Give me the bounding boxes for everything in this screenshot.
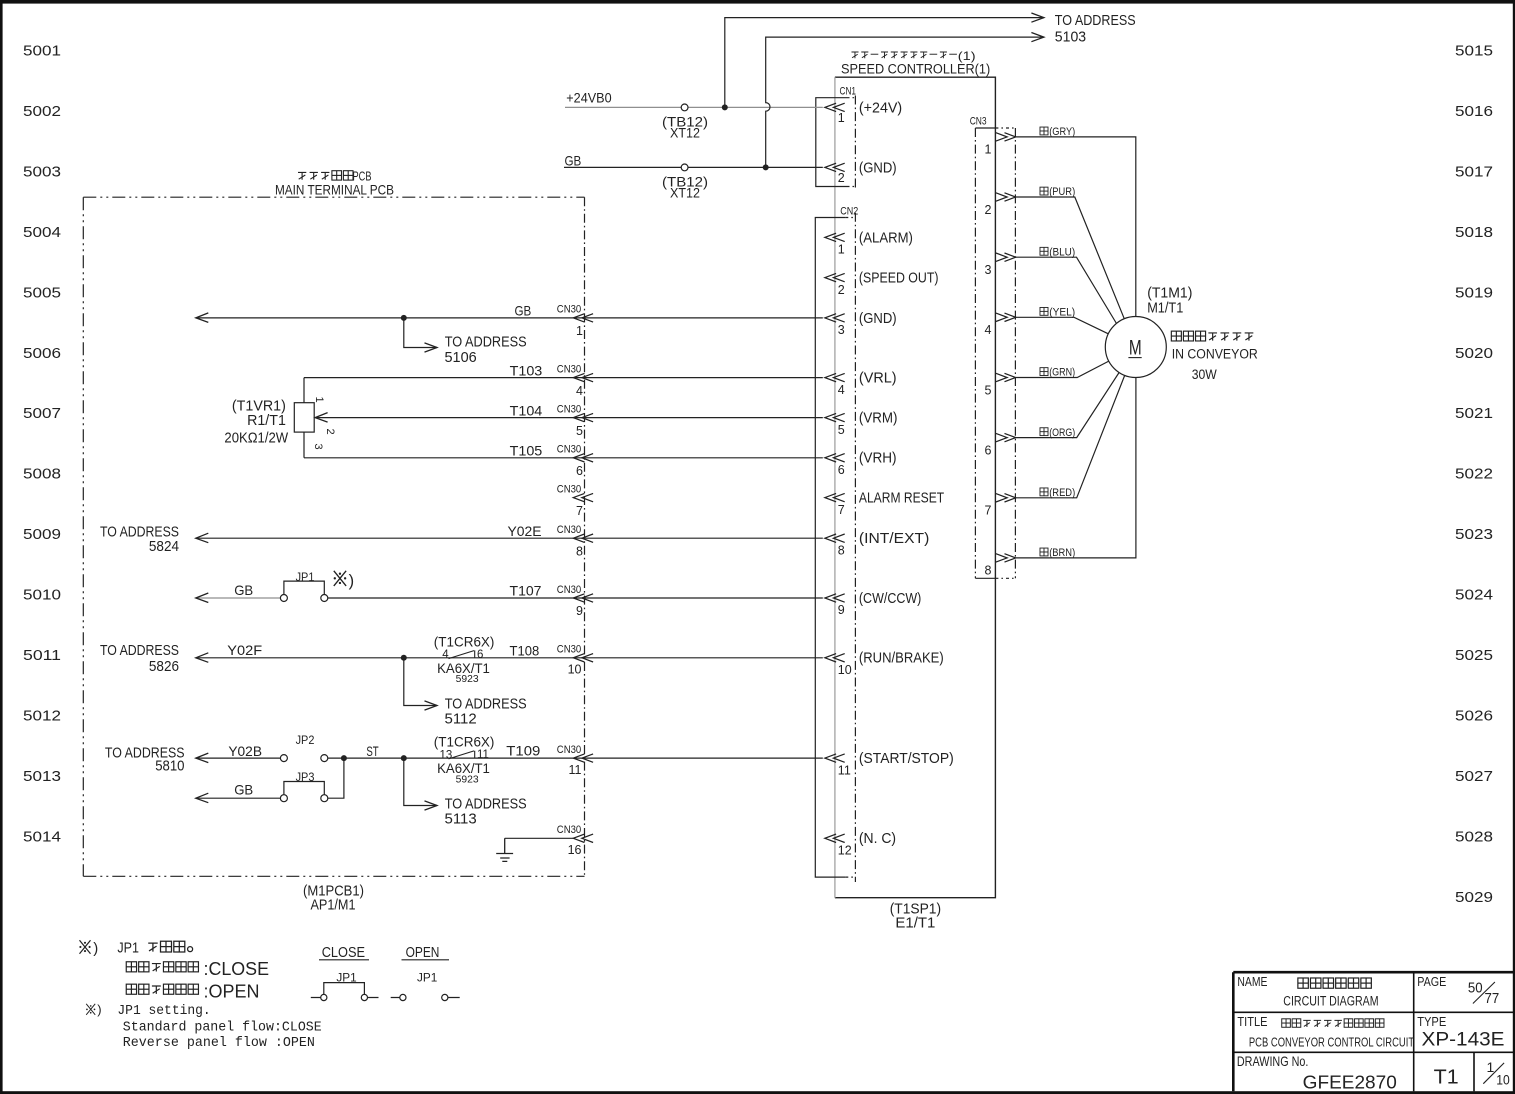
svg-text:1: 1 (576, 324, 583, 338)
svg-text:5029: 5029 (1455, 890, 1493, 906)
svg-text:5826: 5826 (149, 658, 179, 675)
CN30 pin 9 (573, 594, 593, 602)
svg-text:Standard panel flow:CLOSE: Standard panel flow:CLOSE (123, 1019, 322, 1035)
svg-text:(CW/CCW): (CW/CCW) (859, 591, 921, 607)
svg-text:GFEE2870: GFEE2870 (1303, 1071, 1397, 1092)
svg-text:5009: 5009 (23, 527, 61, 543)
svg-text:(ALARM): (ALARM) (859, 230, 913, 246)
svg-text:(GND): (GND) (859, 311, 897, 327)
svg-text:R1/T1: R1/T1 (247, 413, 286, 429)
svg-text:SPEED CONTROLLER(1): SPEED CONTROLLER(1) (841, 61, 990, 77)
label GRY (1040, 127, 1048, 135)
svg-text:CN30: CN30 (557, 304, 581, 316)
wire motor lead ORG (1016, 373, 1119, 438)
svg-text:50: 50 (1468, 979, 1483, 996)
junction on +24VB0 (722, 104, 728, 110)
svg-text:2: 2 (984, 203, 991, 217)
svg-text:(VRH): (VRH) (859, 451, 897, 467)
svg-text:5001: 5001 (23, 44, 61, 60)
svg-text:7: 7 (838, 503, 845, 517)
svg-text:5020: 5020 (1455, 346, 1493, 362)
ground symbol (496, 838, 513, 861)
svg-text:CN30: CN30 (557, 584, 581, 596)
relay contact KA6X/T1 (T1CR6X) pins 13-11 (449, 751, 475, 759)
svg-text:ST: ST (366, 744, 379, 760)
svg-text:NAME: NAME (1237, 974, 1267, 989)
svg-text:JP1 setting.: JP1 setting. (117, 1003, 210, 1019)
svg-text:(ORG): (ORG) (1049, 427, 1075, 439)
wire motor lead GRY (1016, 137, 1136, 317)
jumper JP1 (closed) (280, 595, 287, 602)
CN30 pin 8 (573, 534, 593, 542)
svg-text:(BRN): (BRN) (1049, 547, 1075, 559)
wire GB to JP3 (196, 797, 281, 799)
svg-text:5015: 5015 (1455, 44, 1493, 60)
svg-text:Reverse panel flow :OPEN: Reverse panel flow :OPEN (123, 1035, 315, 1051)
svg-text:5019: 5019 (1455, 285, 1493, 301)
svg-text:CN30: CN30 (557, 444, 581, 456)
CN2 pin 12 (N. C) (825, 834, 845, 842)
junction for 5106 tap (401, 315, 407, 321)
svg-text:12: 12 (838, 844, 852, 858)
svg-text:5923: 5923 (456, 775, 479, 786)
CN2 pin 11 (START/STOP) (825, 754, 845, 762)
connector CN1 (816, 96, 856, 191)
svg-text:5112: 5112 (445, 710, 477, 727)
svg-text:1: 1 (1487, 1059, 1495, 1075)
CN1 pin 1 (+24V) (825, 103, 845, 111)
svg-text:(VRM): (VRM) (859, 411, 898, 427)
wire T107 JP1 to CN2-9 (CW/CCW) (328, 597, 823, 599)
connector CN3 (975, 128, 1015, 578)
CN30 pin 7 (573, 493, 593, 501)
wire motor lead GRN (1016, 361, 1109, 377)
svg-text:6: 6 (984, 443, 991, 457)
CN2 pin 10 (RUN/BRAKE) (825, 654, 845, 662)
svg-text:5013: 5013 (23, 769, 61, 785)
svg-text:Y02E: Y02E (508, 524, 542, 540)
label: speed controller (Japanese) (851, 52, 858, 58)
wire Y02B to JP2, to address 5810 (196, 757, 281, 759)
svg-text:77: 77 (1485, 990, 1500, 1007)
svg-text:(START/STOP): (START/STOP) (859, 751, 954, 767)
svg-text:CN30: CN30 (557, 483, 581, 495)
svg-text:8: 8 (984, 564, 991, 578)
svg-text:5021: 5021 (1455, 406, 1493, 422)
svg-text:11: 11 (569, 763, 582, 777)
svg-text:JP3: JP3 (296, 770, 315, 784)
CN2 pin 4 (VRL) (825, 373, 845, 381)
svg-text:CN2: CN2 (840, 206, 858, 218)
svg-text::OPEN: :OPEN (204, 982, 260, 1002)
svg-text:4: 4 (442, 649, 449, 661)
connector CN30 centerline / box right edge (584, 197, 586, 876)
CN2 pin 5 (VRM) (825, 413, 845, 421)
CN30 pin 1 (573, 314, 593, 322)
CN2 pin 2 (SPEED OUT) (825, 273, 845, 281)
svg-text:2: 2 (324, 429, 336, 435)
svg-text:11: 11 (838, 763, 851, 777)
svg-text:CN30: CN30 (557, 403, 581, 415)
wire to address 5103 (from GB) with hop over +24VB0 (766, 37, 1044, 167)
svg-text:6: 6 (838, 463, 845, 477)
svg-text:5: 5 (576, 424, 583, 438)
svg-text:T105: T105 (510, 444, 543, 460)
svg-text:(T1M1): (T1M1) (1147, 286, 1192, 302)
wire motor lead BLU (1016, 257, 1117, 323)
CN30 pin 11 (573, 754, 593, 762)
svg-text:(RED): (RED) (1049, 487, 1075, 499)
label BLU (1040, 247, 1048, 255)
svg-text:CIRCUIT DIAGRAM: CIRCUIT DIAGRAM (1283, 994, 1378, 1009)
CN2 pin 8 (INT/EXT) (825, 534, 845, 542)
svg-text:16: 16 (568, 843, 582, 857)
label RED (1040, 488, 1048, 496)
svg-text:MAIN TERMINAL PCB: MAIN TERMINAL PCB (275, 183, 394, 198)
wire GND row (GB) CN30-1 to CN2-3 (196, 317, 823, 319)
svg-text:M1/T1: M1/T1 (1147, 300, 1183, 316)
svg-text:CN30: CN30 (557, 744, 581, 756)
wire motor lead BRN (1016, 378, 1136, 558)
svg-text:5017: 5017 (1455, 164, 1493, 180)
svg-text:CLOSE: CLOSE (322, 944, 365, 961)
svg-text:XT12: XT12 (670, 126, 700, 141)
svg-text:30W: 30W (1192, 367, 1218, 383)
svg-text:GB: GB (234, 582, 253, 598)
wire T105 row CN30-6 to CN2-6 (VRH) (304, 457, 823, 459)
svg-text:Y02F: Y02F (227, 643, 262, 659)
svg-text:T1: T1 (1434, 1067, 1459, 1089)
svg-text:5010: 5010 (23, 588, 61, 604)
svg-text:OPEN: OPEN (406, 944, 440, 961)
svg-text:JP1: JP1 (117, 940, 139, 956)
CN3 pin 1 (996, 133, 1016, 141)
wire CN30-16 to ground (505, 837, 574, 839)
svg-text:5008: 5008 (23, 467, 61, 483)
wire T103 row CN30-4 to CN2-4 (VRL) (304, 377, 823, 379)
svg-text:): ) (97, 1002, 101, 1017)
CN3 pin 6 (996, 433, 1016, 441)
svg-text:TITLE: TITLE (1237, 1014, 1267, 1029)
svg-text:5022: 5022 (1455, 467, 1493, 483)
svg-text:GB: GB (515, 303, 532, 319)
svg-text:TO ADDRESS: TO ADDRESS (445, 333, 527, 350)
svg-text:): ) (93, 940, 98, 957)
svg-text:TYPE: TYPE (1417, 1014, 1446, 1029)
svg-text:(GRN): (GRN) (1049, 367, 1075, 379)
svg-text:1: 1 (838, 111, 845, 125)
svg-text:4: 4 (984, 323, 991, 337)
right margin address row numbers 5015-5029 (1455, 44, 1493, 906)
label: main terminal PCB (Japanese) (298, 172, 306, 179)
junction JP3 joins (341, 755, 347, 761)
main terminal PCB box (dash-dot-dot outline) (83, 197, 584, 876)
svg-text:5024: 5024 (1455, 588, 1493, 604)
svg-text:2: 2 (838, 171, 845, 185)
svg-text:5106: 5106 (445, 349, 477, 366)
svg-text:AP1/M1: AP1/M1 (311, 898, 356, 914)
CN2 pin 1 (ALARM) (825, 233, 845, 241)
relay contact KA6X/T1 (T1CR6X) pins 4-6 (449, 650, 475, 658)
CN3 pin 3 (996, 253, 1016, 261)
wire GB to JP1 (196, 597, 281, 599)
wire JP2 to contact, T109 row (328, 757, 823, 759)
svg-text:(VRL): (VRL) (859, 371, 897, 387)
CN30 pin 5 (573, 413, 593, 421)
svg-text:T108: T108 (510, 643, 540, 659)
svg-text:8: 8 (838, 543, 845, 557)
svg-text:GB: GB (234, 781, 253, 797)
svg-text:1: 1 (838, 243, 845, 257)
svg-text:5025: 5025 (1455, 648, 1493, 664)
svg-text:3: 3 (312, 444, 324, 450)
svg-text:7: 7 (576, 504, 583, 518)
svg-text:Y02B: Y02B (228, 744, 262, 760)
label IN CONVEYOR (Japanese+English) (1171, 331, 1181, 341)
svg-text:5923: 5923 (456, 674, 479, 685)
svg-text:5012: 5012 (23, 709, 61, 725)
svg-text:(BLU): (BLU) (1049, 246, 1075, 258)
svg-text:(GRY): (GRY) (1049, 126, 1075, 138)
label GRN (1040, 368, 1048, 376)
svg-text:10: 10 (1496, 1071, 1510, 1087)
CN2 pin 6 (VRH) (825, 454, 845, 462)
wire tap to address 5112 (404, 658, 437, 706)
wire motor lead YEL (1016, 317, 1109, 334)
jumper JP3 (closed) (280, 795, 287, 802)
svg-text:PCB: PCB (353, 169, 372, 183)
reference mark after JP1 (334, 571, 347, 586)
speed controller box (835, 77, 996, 898)
CN3 pin 8 (996, 554, 1016, 562)
svg-text:T104: T104 (510, 403, 543, 419)
svg-text:5002: 5002 (23, 104, 61, 120)
svg-text:5113: 5113 (445, 810, 477, 827)
svg-text:9: 9 (838, 603, 845, 617)
svg-text:ALARM RESET: ALARM RESET (859, 491, 944, 507)
note: JP1 setting (English) (86, 1004, 95, 1015)
motor M1/T1 circle (1105, 317, 1166, 378)
svg-text:7: 7 (984, 504, 991, 518)
CN30 pin 6 (573, 454, 593, 462)
svg-text:(SPEED OUT): (SPEED OUT) (859, 271, 939, 287)
svg-text:(RUN/BRAKE): (RUN/BRAKE) (859, 651, 944, 667)
label ORG (1040, 428, 1048, 436)
svg-text:JP1: JP1 (296, 570, 315, 584)
svg-text:3: 3 (984, 263, 991, 277)
svg-text:CN30: CN30 (557, 824, 581, 836)
svg-text:4: 4 (576, 384, 583, 398)
svg-text:T103: T103 (510, 363, 543, 379)
terminal XT12 (TB12) on +24VB0 (681, 104, 688, 111)
wire +24VB0 feed (565, 106, 823, 108)
wire to address 5103 (from +24VB0) (725, 18, 1044, 108)
svg-text:CN1: CN1 (840, 85, 857, 97)
svg-text:1: 1 (984, 143, 991, 157)
svg-text:5: 5 (984, 383, 991, 397)
wire tap to address 5106 (404, 318, 437, 348)
svg-text:10: 10 (838, 663, 852, 677)
svg-text:CN3: CN3 (970, 116, 987, 128)
svg-text:5011: 5011 (23, 648, 61, 664)
svg-text:(YEL): (YEL) (1049, 307, 1075, 319)
junction for 5112 tap (401, 655, 407, 661)
junction for 5113 tap (401, 755, 407, 761)
svg-text:8: 8 (576, 544, 583, 558)
svg-text:JP2: JP2 (296, 733, 315, 747)
svg-text:6: 6 (576, 464, 583, 478)
potentiometer R1/T1 (T1VR1) 20K ohm (303, 378, 305, 458)
svg-text:(INT/EXT): (INT/EXT) (859, 531, 929, 547)
svg-text:10: 10 (568, 663, 582, 677)
svg-text:JP1: JP1 (417, 970, 438, 984)
svg-text:M: M (1129, 337, 1142, 360)
svg-text:): ) (349, 572, 355, 590)
svg-text:1: 1 (313, 397, 325, 403)
svg-text:5103: 5103 (1055, 28, 1086, 45)
svg-text:5016: 5016 (1455, 104, 1493, 120)
wire Y02F row to address 5826 (196, 657, 823, 659)
svg-text:CN30: CN30 (557, 363, 581, 375)
connector CN2 (815, 213, 855, 882)
svg-text:5028: 5028 (1455, 829, 1493, 845)
svg-text:E1/T1: E1/T1 (895, 916, 935, 932)
terminal XT12 (TB12) on GB (681, 164, 688, 171)
svg-text:5: 5 (838, 423, 845, 437)
svg-text:4: 4 (838, 383, 845, 397)
svg-text:5003: 5003 (23, 164, 61, 180)
svg-text:(+24V): (+24V) (859, 100, 902, 116)
CN3 pin 5 (996, 373, 1016, 381)
svg-text:2: 2 (838, 283, 845, 297)
wire T104 row CN30-5 to CN2-5 (VRM) wiper (316, 417, 823, 419)
svg-text::CLOSE: :CLOSE (204, 959, 270, 979)
svg-text:PAGE: PAGE (1417, 974, 1446, 989)
svg-text:5005: 5005 (23, 285, 61, 301)
svg-text:5014: 5014 (23, 829, 61, 845)
CN2 pin 9 (CW/CCW) (825, 594, 845, 602)
svg-text:5824: 5824 (149, 538, 179, 555)
CN3 pin 2 (996, 193, 1016, 201)
svg-text:(PUR): (PUR) (1049, 186, 1075, 198)
CN3 pin 7 (996, 494, 1016, 502)
wire Y02E row CN30-8 to CN2-8 (INT/EXT), to address 5824 (196, 537, 823, 539)
left margin address row numbers 5001-5014 (23, 44, 61, 846)
label PUR (1040, 187, 1048, 195)
svg-text:TO ADDRESS: TO ADDRESS (1055, 12, 1136, 29)
svg-text:(T1CR6X): (T1CR6X) (434, 634, 495, 650)
svg-text:6: 6 (477, 649, 483, 661)
svg-text:T107: T107 (510, 584, 542, 600)
wire tap to address 5113 (404, 758, 437, 805)
svg-text:5004: 5004 (23, 225, 61, 241)
wire JP3 up to JP2 row (328, 758, 344, 798)
wire GB feed (564, 166, 823, 168)
svg-text:(GND): (GND) (859, 160, 897, 176)
svg-text:5027: 5027 (1455, 769, 1493, 785)
label BRN (1040, 548, 1048, 556)
CN30 pin 10 (573, 654, 593, 662)
CN2 pin 7 ALARM RESET (825, 493, 845, 501)
svg-text:XP-143E: XP-143E (1422, 1029, 1505, 1051)
svg-text:20KΩ1/2W: 20KΩ1/2W (224, 430, 288, 446)
svg-text:9: 9 (576, 604, 583, 618)
title block (1233, 972, 1513, 1091)
svg-text:5810: 5810 (155, 757, 184, 774)
junction on GB (763, 164, 769, 170)
svg-text:5006: 5006 (23, 346, 61, 362)
CN3 pin 4 (996, 313, 1016, 321)
CN2 pin 3 (GND) (825, 314, 845, 322)
jumper JP2 (open) (280, 755, 287, 762)
wire motor lead RED (1016, 375, 1125, 497)
svg-text:(N. C): (N. C) (859, 831, 896, 847)
svg-text:T109: T109 (506, 744, 540, 760)
svg-text:IN CONVEYOR: IN CONVEYOR (1172, 347, 1258, 363)
svg-text:PCB CONVEYOR CONTROL CIRCUIT: PCB CONVEYOR CONTROL CIRCUIT (1249, 1035, 1414, 1050)
svg-text:CN30: CN30 (557, 644, 581, 656)
svg-text:5026: 5026 (1455, 709, 1493, 725)
svg-text:13: 13 (440, 749, 453, 761)
CN30 pin 16 (573, 834, 593, 842)
CN30 pin 4 (573, 373, 593, 381)
CN1 pin 2 (GND) (825, 163, 845, 171)
svg-text:DRAWING No.: DRAWING No. (1237, 1053, 1309, 1069)
svg-text:(T1CR6X): (T1CR6X) (434, 735, 495, 751)
svg-text:CN30: CN30 (557, 524, 581, 536)
svg-text:5018: 5018 (1455, 225, 1493, 241)
svg-text:5007: 5007 (23, 406, 61, 422)
svg-text:TO ADDRESS: TO ADDRESS (100, 642, 179, 659)
label YEL (1040, 307, 1048, 315)
svg-text:XT12: XT12 (670, 186, 700, 201)
svg-text:3: 3 (838, 323, 845, 337)
wire motor lead PUR (1016, 197, 1125, 319)
svg-text:11: 11 (477, 749, 489, 761)
note: JP1 setting (Japanese) (79, 940, 90, 954)
svg-text:+24VB0: +24VB0 (566, 91, 612, 106)
svg-text:GB: GB (565, 153, 582, 168)
svg-text:5023: 5023 (1455, 527, 1493, 543)
